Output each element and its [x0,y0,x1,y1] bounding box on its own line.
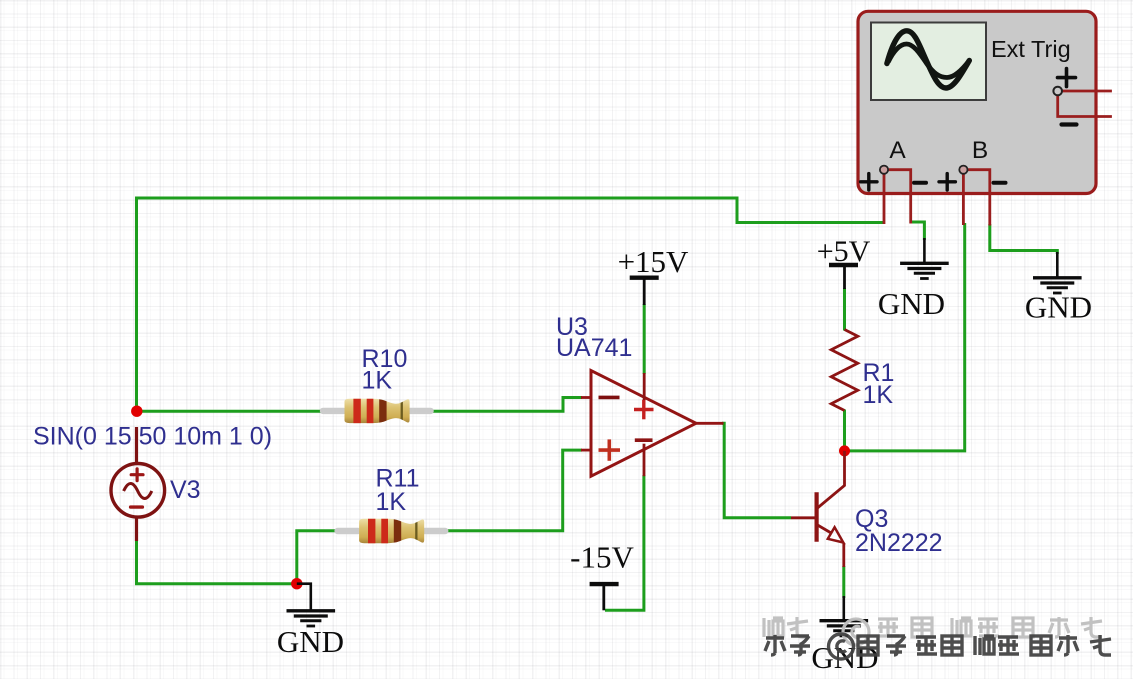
svg-text:1K: 1K [376,488,407,516]
oscilloscope XSC1 body [858,11,1096,193]
channel A pin [880,166,888,174]
wire: R10 right to op-amp inverting input [432,398,582,412]
op-amp non-inverting input mark [599,439,621,460]
voltage source V3 [111,427,165,541]
Ext Trig - mark [1062,122,1077,126]
svg-text:+15V: +15V [618,244,689,279]
watermark line 2: 头条 @电子工程师助理小七 [765,634,1111,659]
oscilloscope screen [871,23,986,101]
Ext Trig stub wires [1058,91,1112,117]
op-amp V+ mark [634,400,654,420]
wire: scope A- to ground A [911,222,925,240]
svg-text:1K: 1K [863,381,894,409]
svg-text:SIN(0 15 50 10m 1 0): SIN(0 15 50 10m 1 0) [33,423,272,451]
wire: +5V to R1 top [843,288,846,331]
svg-text:GND: GND [878,286,945,321]
svg-text:V3: V3 [170,476,201,504]
wire: scope B- to ground B [990,224,1058,254]
Q3 emitter arrow [828,527,844,542]
ground symbol near scope A [878,238,949,321]
transistor Q3 [791,451,845,567]
op-amp U3 [581,371,724,477]
svg-text:A: A [889,137,906,164]
wire: +15V to op-amp top power pin [643,304,646,374]
supply +15V [618,244,689,305]
op-amp power pin stubs [643,373,646,400]
ground symbol below Q3 [811,596,878,675]
wire: ground junction up to R11 left [297,531,336,584]
wire: R11 right to op-amp non-inverting input [447,450,582,531]
wire: op-amp bottom power pin to -15V [605,475,644,610]
channel B pin [959,166,967,174]
resistor R11 [334,518,448,544]
wire: top rail to scope A+ [135,198,884,223]
svg-text:2N2222: 2N2222 [855,529,943,557]
wire: junction to scope B+ [845,223,965,451]
node: R1/Q3 collector junction [839,445,850,456]
watermark line 1: 知乎 @工程师助理小七 [764,617,1102,645]
wire: R1 bottom to junction [843,410,846,451]
ground symbol near V3 [277,584,344,659]
ground symbol near scope B [1025,252,1092,325]
node: ground junction [291,578,302,589]
wire: junction to R10 left [137,410,323,413]
wire: V3 bottom to ground junction [137,539,297,584]
svg-text:-15V: -15V [570,540,634,575]
oscilloscope sine icon [887,31,969,88]
channel A - mark [914,181,926,185]
op-amp inverting input mark [599,396,620,400]
channel A leads [884,170,911,224]
channel B leads [963,170,989,226]
svg-text:GND: GND [1025,290,1092,325]
svg-text:GND: GND [277,624,344,659]
channel A + mark [861,174,877,190]
supply -15V [570,540,634,611]
wire: V3 junction up to top rail [135,198,138,411]
resistor R1 zigzag [831,330,858,411]
Ext Trig + mark [1058,69,1076,87]
channel B + mark [939,174,955,190]
node: V3 output junction [131,406,142,417]
wire: Q3 emitter to ground [842,566,845,598]
wire: op-amp output to Q3 base [722,423,791,518]
channel B - mark [994,181,1006,185]
resistor R10 [320,398,434,424]
svg-text:Ext Trig: Ext Trig [991,36,1071,62]
svg-text:UA741: UA741 [556,334,632,362]
Ext Trig pin [1053,87,1062,96]
op-amp V- mark [635,438,653,442]
svg-text:B: B [972,137,988,164]
svg-text:1K: 1K [362,367,393,395]
op-amp input stubs [581,396,591,399]
supply +5V [817,235,871,289]
op-amp output stub [696,422,724,425]
